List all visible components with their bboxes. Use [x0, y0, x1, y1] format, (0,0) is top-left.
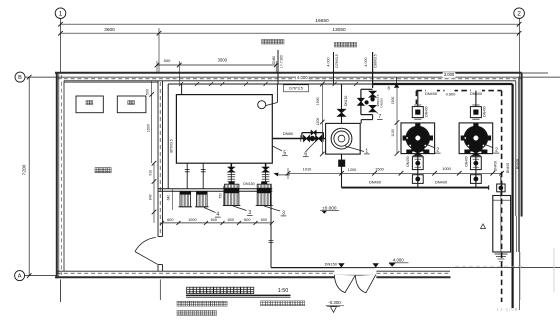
interior wall lower [157, 265, 159, 272]
svg-text:DN400: DN400 [435, 180, 448, 185]
dashed box left stub [415, 91, 417, 104]
pump A top nub [415, 124, 420, 128]
svg-text:1: 1 [59, 11, 63, 18]
dim ext x288 [287, 168, 289, 179]
riser DN80 pipe [277, 50, 279, 84]
door leaf left [334, 275, 355, 293]
grid line 2 [519, 19, 521, 311]
pump B lower flange 1 [471, 157, 482, 170]
svg-text:1200: 1200 [316, 118, 320, 126]
tank outlet valve 4 [265, 163, 267, 172]
dim line 7200 left [28, 77, 30, 276]
label 4 leader [204, 208, 216, 213]
riser D76 pipe [333, 52, 335, 84]
bottom wall center dashed [57, 272, 334, 274]
interior wall extension below [159, 280, 161, 301]
label DN400 a [425, 91, 437, 96]
faint vline b [520, 252, 522, 300]
grid axis circle A [15, 271, 25, 281]
dim line 3600 13050 [61, 32, 520, 34]
svg-text:16650: 16650 [315, 18, 329, 24]
right tank top line [493, 199, 511, 201]
svg-text:2: 2 [517, 11, 521, 18]
cabinet 1 label [86, 101, 89, 105]
DN80 gauge circle [310, 136, 315, 141]
pump A lower flange 1 [412, 157, 423, 170]
right wall mid line [517, 77, 519, 216]
pump B lower flange 2 [471, 175, 482, 184]
branch arrow [394, 83, 399, 88]
riser valve A [369, 91, 376, 97]
label 3.000 on wall [443, 72, 456, 77]
top pipe tick marks [179, 82, 183, 86]
svg-text:D89X3.5: D89X3.5 [374, 54, 378, 67]
pump B top nub [473, 124, 478, 128]
dim line 1910 1200 1500 1000 [288, 172, 502, 174]
svg-text:1910: 1910 [303, 167, 312, 172]
svg-text:4.000: 4.000 [393, 257, 404, 262]
dim vert 640 [172, 189, 174, 210]
grid line 1 [60, 19, 62, 73]
dim line 500 3500 [157, 64, 276, 66]
label DN400 b [470, 91, 482, 96]
label 2 leader A [421, 142, 434, 148]
left wall outer thick [56, 73, 58, 278]
drain pipe middle [341, 267, 375, 269]
pump A volute [406, 126, 430, 150]
label 1 leader [345, 146, 364, 152]
svg-text:3600: 3600 [104, 27, 115, 33]
faint vline a [553, 248, 555, 292]
thick pipe drop right [511, 84, 513, 308]
label DN150 bottom [325, 262, 337, 267]
top pipe thin run [168, 83, 372, 85]
grid axis circle 2 [514, 8, 525, 19]
svg-text:A: A [18, 274, 22, 280]
dashed box top [416, 90, 501, 92]
grid axis circle B [15, 72, 25, 82]
left wall center dashed [60, 75, 62, 275]
svg-text:1500: 1500 [316, 97, 320, 105]
svg-text:L=-7.300: L=-7.300 [280, 55, 284, 68]
pump 3 (right) [257, 184, 271, 205]
svg-text:-0.300: -0.300 [328, 300, 341, 305]
pump A square [401, 123, 435, 154]
small pump 2 [197, 192, 208, 207]
door swing arc [135, 238, 156, 252]
tank outlet stub 1 [186, 163, 188, 189]
svg-text:DN150: DN150 [344, 96, 348, 106]
unit1 riser up [341, 84, 343, 123]
pump A top flange [412, 107, 423, 118]
svg-text:DN80: DN80 [272, 56, 276, 64]
unit1 valve up [338, 109, 346, 116]
svg-text:3.000: 3.000 [444, 72, 455, 77]
pump B top flange [470, 107, 481, 118]
label 0.600 [445, 92, 457, 97]
float valve circle [258, 101, 266, 109]
pump B outlet band [469, 148, 482, 152]
pipe DN80 [272, 138, 325, 140]
svg-text:DN400: DN400 [464, 156, 468, 166]
dim 500 vertical [151, 81, 153, 95]
bypass gauge [365, 101, 369, 105]
label 3a leader [233, 206, 247, 211]
riser elbow [372, 115, 374, 120]
dashed box right [501, 91, 503, 302]
svg-text:4.000: 4.000 [364, 57, 368, 66]
riser gauge [371, 97, 375, 101]
svg-text:910: 910 [149, 170, 153, 176]
svg-text:750: 750 [219, 193, 223, 199]
label 4.000 on wall [296, 75, 309, 80]
pump A outlet band [411, 148, 424, 152]
title underline [186, 294, 291, 296]
top wall center dashed [57, 78, 521, 80]
right tank mark [481, 224, 486, 229]
interior wall [157, 81, 159, 237]
right tank [493, 196, 511, 253]
pipe DN400 lower [342, 187, 489, 189]
pump A riser top [417, 91, 419, 107]
left room inner top line [64, 81, 158, 83]
right tank center line [500, 196, 502, 253]
dash label gaps [426, 89, 437, 97]
top wall line extension right [522, 72, 548, 74]
riser valve B [369, 105, 376, 112]
dim extension x159 [158, 28, 160, 73]
door leaf right [355, 275, 375, 293]
pump A riser down [417, 154, 419, 188]
svg-text:500: 500 [146, 89, 150, 95]
note row2 left [177, 301, 181, 306]
svg-text:13050: 13050 [332, 27, 346, 33]
svg-text:4.000: 4.000 [327, 57, 331, 66]
faint line right [455, 265, 525, 267]
svg-text:3500: 3500 [218, 58, 228, 63]
unit1 square [326, 123, 361, 154]
pump A nubs [403, 136, 406, 141]
drain arrow 1 [338, 263, 344, 267]
right tank break lines [495, 253, 508, 255]
valve V1 [304, 136, 310, 142]
unit1 circles [331, 128, 352, 149]
svg-text:Ø76X3.5: Ø76X3.5 [170, 139, 174, 152]
svg-text:B: B [18, 75, 22, 81]
dim line 16650 [61, 23, 520, 25]
label 2 leader B [479, 142, 493, 148]
drain riser [270, 191, 272, 267]
small pump 1 [180, 192, 191, 207]
makeup port note text [334, 42, 337, 47]
svg-text:DN250: DN250 [380, 98, 384, 108]
right wall inner line [515, 81, 517, 216]
tank outlet valve 3 [230, 163, 232, 172]
pump B feet [464, 150, 470, 154]
svg-text:DN150: DN150 [325, 261, 338, 266]
svg-text:1:50: 1:50 [278, 288, 289, 294]
pump B square [459, 123, 493, 154]
svg-text:1000: 1000 [188, 218, 196, 222]
pump B volute [464, 126, 488, 150]
right wall outer thick [521, 73, 523, 217]
label 6 leader [306, 141, 316, 152]
door sill line [334, 274, 376, 276]
svg-text:DN400: DN400 [494, 161, 498, 171]
svg-text:7200: 7200 [22, 164, 28, 175]
pump A feet [406, 150, 412, 154]
water tank [176, 95, 272, 164]
left wall extension below [60, 280, 62, 303]
note row3 [177, 311, 181, 316]
svg-text:600: 600 [261, 218, 267, 222]
right tank flange [497, 184, 505, 192]
dim vert 910 840 [153, 163, 155, 223]
tank fill riser [181, 84, 183, 95]
boxed D76 label [284, 85, 309, 92]
dim ext lines [156, 61, 158, 73]
pump A outlet bowtie [414, 151, 422, 156]
bypass loop [361, 88, 373, 90]
svg-text:DN400: DN400 [482, 106, 486, 116]
svg-text:4.000: 4.000 [297, 75, 308, 80]
bottom wall inner line [57, 270, 334, 272]
svg-text:DN400: DN400 [506, 163, 510, 173]
svg-text:DN150: DN150 [243, 182, 254, 186]
valve V2 [316, 136, 322, 142]
pump B outlet bowtie [472, 151, 480, 156]
svg-text:±0.000: ±0.000 [322, 205, 337, 210]
unit1 riser down [341, 154, 343, 188]
DN80 flange ticks [300, 135, 302, 142]
makeup water note text [262, 39, 265, 44]
svg-text:L J - 1 / 0 8: L J - 1 / 0 8 [497, 306, 518, 311]
pump B riser down [475, 154, 477, 188]
dim 1500 vertical [151, 94, 153, 163]
room name text [95, 168, 99, 173]
tank outlet stub 2 [202, 163, 204, 189]
svg-text:500: 500 [164, 58, 171, 63]
left wall inner line [63, 81, 65, 271]
left wall inner thin [58, 74, 60, 277]
pump row pipe [158, 188, 272, 190]
drain arrow 2 [373, 263, 379, 267]
svg-text:1100: 1100 [391, 129, 395, 137]
svg-text:DN400: DN400 [516, 159, 520, 169]
label 7 leader [374, 110, 378, 114]
grid line A stub [25, 275, 57, 277]
dim right of unit1 [396, 88, 398, 154]
svg-text:0.600: 0.600 [446, 92, 457, 97]
svg-text:840: 840 [149, 194, 153, 200]
svg-text:1200: 1200 [348, 167, 357, 172]
cabinet 2 label [128, 101, 131, 105]
svg-text:DN400: DN400 [424, 106, 428, 116]
grid line B [25, 76, 560, 78]
label DN150 row [243, 181, 254, 186]
label 5 leader [272, 146, 282, 151]
pump B nubs [461, 136, 464, 141]
svg-text:DN400: DN400 [406, 156, 410, 166]
title text [187, 287, 194, 293]
svg-text:600: 600 [244, 218, 250, 222]
pump 3 (left) [224, 184, 239, 205]
svg-text:600: 600 [167, 218, 173, 222]
grid axis circle 1 [55, 8, 66, 19]
svg-text:1000: 1000 [442, 166, 451, 171]
bottom wall outer thick [55, 276, 334, 278]
svg-text:1500: 1500 [147, 124, 151, 132]
svg-text:1500: 1500 [391, 97, 395, 105]
dim vert 750 [223, 186, 225, 206]
electrical cabinet box 1 [76, 96, 103, 113]
svg-text:D76*3.5: D76*3.5 [289, 87, 303, 91]
float valve line [276, 84, 278, 103]
svg-text:DN400: DN400 [369, 180, 382, 185]
dim line 600s [162, 222, 273, 224]
pump B riser top [475, 91, 477, 107]
dim left of unit1 [321, 84, 323, 154]
svg-text:600: 600 [228, 218, 234, 222]
top pipe thick run [373, 83, 513, 85]
svg-text:640: 640 [166, 195, 170, 201]
riser o76 left [167, 84, 169, 189]
bypass valve [358, 98, 365, 105]
top wall inner line [64, 80, 516, 82]
svg-text:1500: 1500 [375, 166, 384, 171]
label 3b leader [264, 206, 280, 211]
arrow leader right [277, 174, 290, 176]
DN80 bypass loop [302, 132, 324, 134]
unit1 valve down [338, 160, 345, 167]
right wall stub lines [516, 216, 518, 252]
pump A lower flange 2 [412, 175, 423, 184]
drain pipe right [376, 267, 560, 269]
top wall outer thick [55, 72, 522, 74]
svg-text:DN80: DN80 [283, 131, 294, 136]
svg-text:D76X3.5: D76X3.5 [335, 54, 339, 67]
door leaf line [135, 252, 158, 265]
svg-text:600: 600 [211, 218, 217, 222]
drain pipe bottom [271, 267, 341, 269]
svg-text:DN400: DN400 [425, 91, 438, 96]
note row2 right [261, 301, 266, 306]
electrical cabinet box 2 [117, 96, 146, 113]
riser DN main [372, 52, 374, 88]
